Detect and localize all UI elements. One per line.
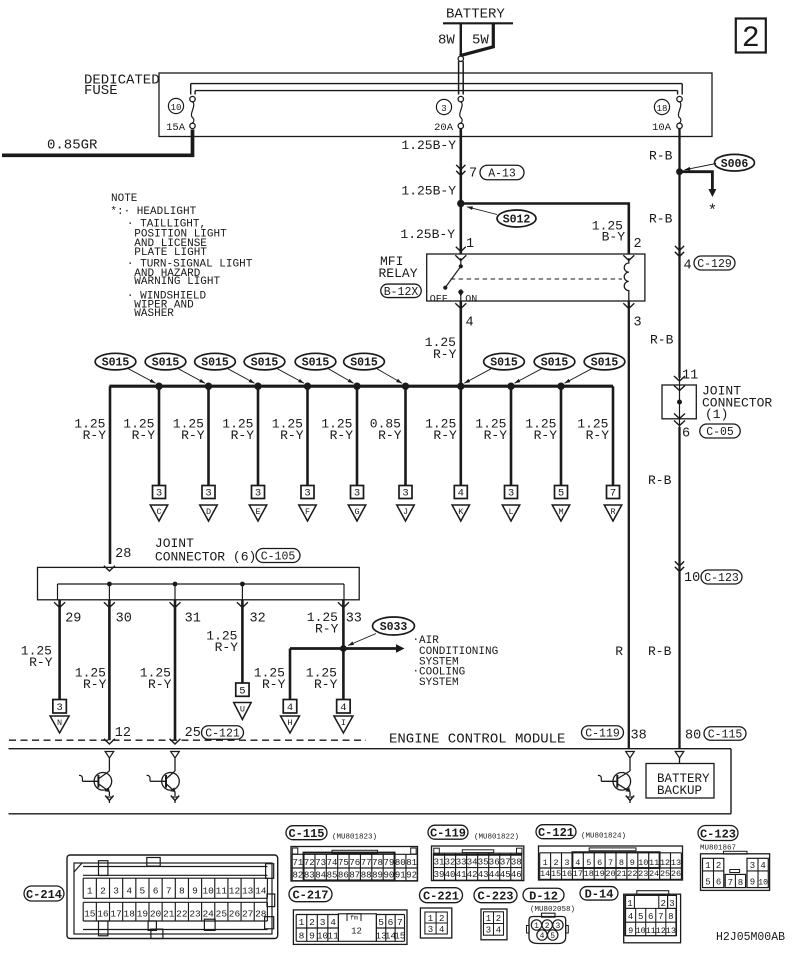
wire 0.85R-Y drop J — [370, 386, 414, 521]
splice label S015 #9 — [557, 353, 625, 390]
svg-text:9: 9 — [192, 886, 198, 897]
svg-text:28: 28 — [255, 909, 267, 920]
joint connector C-105 pin 29 — [54, 602, 81, 626]
wire 1.25R-Y drop to joint connector C-105 — [74, 386, 110, 564]
svg-text:24: 24 — [649, 869, 659, 879]
svg-text:C-115: C-115 — [708, 729, 743, 742]
svg-text:5W: 5W — [472, 33, 489, 49]
connector D-12 legend — [523, 888, 575, 943]
svg-text:88: 88 — [361, 871, 372, 881]
svg-text:S015: S015 — [102, 357, 130, 370]
svg-text:6: 6 — [648, 912, 653, 922]
svg-text:R-Y: R-Y — [433, 428, 457, 443]
svg-text:U: U — [240, 704, 245, 714]
svg-text:3: 3 — [441, 104, 446, 114]
svg-text:4: 4 — [126, 886, 132, 897]
svg-text:2: 2 — [660, 899, 665, 909]
svg-text:3: 3 — [320, 917, 326, 928]
splice label S015 #1 — [95, 353, 163, 390]
svg-text:H: H — [287, 718, 292, 728]
wire 1.25R-Y pin33 to splice S033 — [307, 600, 344, 649]
svg-text:75: 75 — [338, 858, 349, 868]
svg-text:3: 3 — [669, 899, 674, 909]
svg-text:R: R — [610, 507, 615, 517]
wire 1.25R-Y pin31 to ECM pin 25 — [140, 600, 244, 744]
svg-text:25: 25 — [660, 869, 670, 879]
svg-text:1: 1 — [543, 858, 548, 868]
svg-text:4: 4 — [684, 259, 692, 274]
svg-text:12: 12 — [660, 858, 670, 868]
svg-text:46: 46 — [511, 870, 522, 880]
svg-text:C-129: C-129 — [697, 258, 732, 271]
svg-text:38: 38 — [631, 729, 647, 744]
splice label S015 #4 — [244, 353, 311, 390]
svg-text:20: 20 — [150, 909, 162, 920]
svg-text:36: 36 — [489, 857, 500, 867]
svg-text:21: 21 — [163, 909, 175, 920]
battery feed double wire — [459, 61, 464, 94]
svg-text:S015: S015 — [201, 357, 229, 370]
battery B+ — [438, 7, 513, 62]
page number box 2 — [736, 19, 766, 57]
svg-text:R-Y: R-Y — [433, 347, 457, 362]
svg-text:79: 79 — [383, 858, 394, 868]
svg-text:1: 1 — [705, 861, 710, 871]
svg-text:15: 15 — [84, 909, 96, 920]
svg-text:13: 13 — [666, 926, 676, 936]
svg-text:C-119: C-119 — [430, 827, 466, 841]
svg-text:E: E — [255, 507, 260, 517]
svg-text:8: 8 — [619, 858, 624, 868]
svg-text:R-B: R-B — [649, 149, 673, 164]
splice bus S015 — [109, 385, 613, 388]
svg-text:1: 1 — [299, 917, 305, 928]
svg-text:28: 28 — [115, 547, 131, 562]
svg-text:17: 17 — [110, 909, 121, 920]
svg-text:I: I — [341, 718, 346, 728]
svg-text:C-123: C-123 — [704, 572, 739, 585]
svg-text:12: 12 — [229, 886, 241, 897]
wire 1.25R-Y drop G — [321, 386, 365, 521]
ECM pin 38 — [626, 729, 647, 759]
svg-text:11: 11 — [649, 858, 659, 868]
wire R relay pin 3 to ECM pin 38 — [615, 301, 629, 749]
svg-text:5: 5 — [378, 917, 384, 928]
svg-text:14: 14 — [540, 869, 550, 879]
svg-text:9: 9 — [630, 858, 635, 868]
connector C-119 legend — [428, 825, 524, 880]
svg-text:43: 43 — [478, 870, 489, 880]
svg-text:4: 4 — [287, 702, 293, 714]
svg-text:7: 7 — [469, 167, 477, 182]
svg-text:1.25B-Y: 1.25B-Y — [401, 138, 456, 153]
svg-text:19: 19 — [137, 909, 149, 920]
svg-text:SYSTEM: SYSTEM — [419, 677, 459, 689]
transistor Q2 — [147, 759, 180, 804]
svg-text:R-Y: R-Y — [314, 677, 338, 692]
svg-text:11: 11 — [216, 886, 228, 897]
wire branch S012 to relay pin 2 — [461, 204, 629, 255]
svg-text:C-221: C-221 — [423, 890, 459, 904]
svg-text:7: 7 — [166, 886, 172, 897]
svg-text:84: 84 — [315, 871, 326, 881]
svg-text:2: 2 — [742, 22, 760, 56]
svg-text:5: 5 — [558, 488, 564, 500]
svg-text:7: 7 — [658, 912, 663, 922]
svg-text:S015: S015 — [490, 357, 518, 370]
svg-text:12: 12 — [351, 927, 362, 937]
svg-text:29: 29 — [65, 612, 81, 627]
connector marker 7 A-13 — [456, 165, 524, 182]
svg-text:*:· HEADLIGHT: *:· HEADLIGHT — [110, 206, 196, 218]
svg-text:90: 90 — [383, 871, 394, 881]
wire 1.25B-Y battery feed to relay — [400, 129, 460, 255]
fusebox bus bar upper — [191, 83, 683, 85]
svg-text:ENGINE CONTROL MODULE: ENGINE CONTROL MODULE — [389, 732, 565, 748]
svg-text:C-115: C-115 — [288, 827, 324, 841]
svg-text:81: 81 — [406, 858, 417, 868]
relay pin 2 — [623, 237, 641, 261]
svg-text:S015: S015 — [541, 357, 569, 370]
svg-text:R-Y: R-Y — [315, 622, 339, 637]
svg-text:38: 38 — [511, 857, 522, 867]
ECM pin 80 — [675, 729, 701, 759]
svg-text:40: 40 — [445, 870, 456, 880]
svg-text:39: 39 — [434, 870, 445, 880]
svg-text:A-13: A-13 — [488, 168, 516, 181]
svg-text:15: 15 — [394, 931, 406, 942]
svg-text:3: 3 — [564, 858, 569, 868]
svg-text:71: 71 — [292, 858, 303, 868]
svg-text:3: 3 — [750, 861, 755, 871]
svg-text:J: J — [403, 507, 408, 517]
svg-text:76: 76 — [349, 858, 360, 868]
wire 1.25R-Y drop F — [272, 386, 316, 521]
transistor Q3 — [598, 759, 634, 804]
svg-text:14: 14 — [255, 886, 267, 897]
svg-text:NOTE: NOTE — [111, 193, 138, 205]
svg-text:4: 4 — [760, 861, 765, 871]
wire 1.25R-Y relay pin 4 to splice bus — [425, 301, 461, 386]
svg-text:42: 42 — [467, 870, 478, 880]
svg-text:D: D — [206, 507, 211, 517]
svg-text:6: 6 — [597, 858, 602, 868]
svg-text:C-05: C-05 — [706, 426, 734, 439]
svg-text:K: K — [458, 507, 464, 517]
wire 1.25R-Y drop C — [123, 386, 167, 521]
svg-text:16: 16 — [562, 869, 572, 879]
svg-text:8: 8 — [668, 912, 673, 922]
svg-text:4: 4 — [575, 858, 580, 868]
svg-text:7: 7 — [610, 488, 616, 500]
svg-text:6: 6 — [388, 917, 394, 928]
svg-text:(MU801823): (MU801823) — [332, 834, 377, 842]
svg-text:8W: 8W — [438, 33, 455, 49]
svg-text:4: 4 — [540, 932, 545, 941]
svg-text:C-217: C-217 — [292, 889, 328, 903]
ECM pin 12 input — [105, 752, 114, 759]
svg-text:1: 1 — [466, 237, 474, 252]
svg-text:3: 3 — [354, 488, 360, 500]
wire 1.25R-Y drop L — [475, 386, 519, 521]
svg-text:10: 10 — [758, 879, 768, 888]
svg-text:21: 21 — [616, 869, 626, 879]
svg-text:33: 33 — [456, 857, 467, 867]
svg-text:11: 11 — [646, 926, 656, 936]
transistor Q1 — [79, 759, 114, 804]
connector marker 10 C-123 — [675, 561, 742, 586]
svg-text:R-Y: R-Y — [29, 655, 53, 670]
svg-text:10: 10 — [202, 886, 214, 897]
svg-text:1: 1 — [534, 922, 539, 931]
svg-text:4: 4 — [439, 925, 444, 935]
wire 0.85GR from fuse 10 — [2, 130, 193, 156]
svg-text:7: 7 — [728, 878, 733, 888]
note text block — [110, 193, 252, 320]
svg-text:33: 33 — [346, 612, 362, 627]
svg-text:S015: S015 — [152, 357, 180, 370]
svg-text:22: 22 — [627, 869, 637, 879]
connector C-221 legend — [420, 888, 463, 938]
svg-text:WARNING LIGHT: WARNING LIGHT — [134, 276, 220, 288]
svg-text:1: 1 — [87, 886, 93, 897]
svg-text:S033: S033 — [380, 621, 408, 634]
svg-text:3: 3 — [156, 488, 162, 500]
svg-text:R-B: R-B — [648, 644, 672, 659]
svg-text:R-Y: R-Y — [83, 428, 107, 443]
svg-text:C-123: C-123 — [700, 827, 736, 841]
svg-text:10: 10 — [171, 103, 182, 113]
connector C-223 legend — [474, 888, 517, 940]
svg-text:C-214: C-214 — [26, 888, 62, 902]
svg-text:34: 34 — [467, 857, 478, 867]
relay pin 4 — [455, 303, 473, 330]
svg-text:C-105: C-105 — [261, 551, 296, 564]
svg-text:(1): (1) — [705, 407, 728, 422]
svg-text:10: 10 — [636, 926, 646, 936]
connector C-115 — [286, 826, 418, 881]
connector C-123 legend — [698, 826, 770, 891]
wire 1.25R-Y drop D — [173, 386, 217, 521]
svg-text:9: 9 — [750, 878, 755, 888]
svg-text:86: 86 — [338, 871, 349, 881]
svg-text:R-B: R-B — [649, 212, 673, 227]
svg-text:13: 13 — [671, 858, 681, 868]
svg-text:2: 2 — [439, 914, 444, 924]
svg-text:9: 9 — [628, 926, 633, 936]
svg-text:4: 4 — [628, 912, 633, 922]
svg-text:8: 8 — [738, 878, 743, 888]
svg-text:1.25B-Y: 1.25B-Y — [400, 227, 455, 242]
svg-text:M: M — [558, 507, 563, 517]
ECM connector label C-115 — [704, 727, 746, 741]
svg-text:24: 24 — [202, 909, 214, 920]
splice label S015 #8 — [507, 353, 575, 390]
svg-text:C: C — [156, 507, 161, 517]
svg-text:9: 9 — [309, 931, 315, 942]
svg-text:8: 8 — [179, 886, 185, 897]
svg-text:80: 80 — [685, 729, 701, 744]
svg-text:2: 2 — [634, 237, 642, 252]
svg-text:20A: 20A — [434, 122, 454, 134]
ECM pin 25 input — [171, 752, 180, 759]
svg-text:26: 26 — [229, 909, 241, 920]
svg-text:1: 1 — [627, 899, 632, 909]
svg-text:74: 74 — [327, 858, 338, 868]
svg-text:H2J05M00AB: H2J05M00AB — [716, 931, 785, 944]
splice label S015 #6 — [344, 353, 410, 390]
wire 1.25R-Y drop R — [577, 386, 621, 521]
connector D-14 legend — [580, 887, 681, 943]
svg-text:5: 5 — [140, 886, 146, 897]
svg-text:D-12: D-12 — [529, 889, 558, 903]
svg-text:20: 20 — [605, 869, 615, 879]
svg-text:C-121: C-121 — [205, 728, 240, 741]
wire S006 branch stub — [680, 172, 718, 220]
engine control module boundary — [9, 732, 732, 814]
svg-text:7: 7 — [608, 858, 613, 868]
relay switch contact — [430, 258, 478, 306]
connector C-217 legend — [289, 887, 407, 945]
svg-text:22: 22 — [176, 909, 188, 920]
splice S006 — [676, 154, 754, 175]
wire 1.25R-Y pin30 to ECM pin 12 — [75, 600, 131, 744]
joint connector (1) C-05 — [662, 369, 772, 442]
svg-text:RELAY: RELAY — [379, 266, 418, 281]
svg-text:26: 26 — [671, 869, 681, 879]
fusebox bus bar lower — [195, 90, 677, 92]
connector marker 4 C-129 — [675, 246, 735, 274]
svg-text:3: 3 — [56, 702, 62, 714]
svg-text:5: 5 — [705, 878, 710, 888]
svg-text:31: 31 — [434, 857, 445, 867]
svg-text:82: 82 — [292, 871, 303, 881]
svg-text:1: 1 — [428, 914, 433, 924]
wire 1.25R-Y drop M — [525, 386, 569, 521]
svg-text:3: 3 — [304, 488, 310, 500]
svg-text:OFF: OFF — [430, 295, 448, 306]
svg-text:23: 23 — [189, 909, 201, 920]
svg-text:5: 5 — [586, 858, 591, 868]
wire 1.25R-Y pin29 to ground N — [21, 600, 69, 733]
svg-text:11: 11 — [327, 931, 339, 942]
relay pin 1 — [455, 237, 474, 261]
svg-text:5: 5 — [239, 685, 245, 697]
svg-text:R: R — [615, 644, 623, 659]
svg-text:12: 12 — [656, 926, 666, 936]
svg-text:0.85GR: 0.85GR — [47, 138, 98, 154]
svg-text:S012: S012 — [503, 214, 531, 227]
svg-text:2: 2 — [100, 886, 106, 897]
svg-text:(MU801824): (MU801824) — [581, 833, 626, 841]
svg-text:4: 4 — [496, 926, 501, 936]
joint connector (6) C-105 — [38, 536, 360, 600]
svg-text:80: 80 — [395, 858, 406, 868]
svg-text:27: 27 — [242, 909, 253, 920]
svg-text:fm: fm — [350, 915, 358, 922]
svg-text:B-Y: B-Y — [602, 230, 626, 245]
svg-text:91: 91 — [395, 871, 406, 881]
svg-text:R-Y: R-Y — [330, 428, 354, 443]
svg-text:1.25B-Y: 1.25B-Y — [401, 184, 456, 199]
svg-text:6: 6 — [153, 886, 159, 897]
svg-text:C-121: C-121 — [538, 826, 574, 840]
wire 1.25R-Y branch to ground I — [306, 649, 353, 734]
svg-text:C-119: C-119 — [585, 728, 620, 741]
A/C system note text — [413, 635, 499, 689]
joint connector C-105 pin 30 — [104, 602, 132, 626]
svg-text:23: 23 — [638, 869, 648, 879]
svg-text:78: 78 — [372, 858, 383, 868]
svg-text:85: 85 — [327, 871, 338, 881]
wire 1.25R-Y branch to ground H — [254, 649, 300, 734]
battery backup unit — [646, 758, 714, 798]
svg-text:4: 4 — [458, 488, 464, 500]
svg-text:31: 31 — [185, 612, 201, 627]
wire 1.25R-Y drop E — [222, 386, 266, 521]
relay pin 3 — [623, 303, 641, 330]
svg-text:37: 37 — [500, 857, 511, 867]
svg-text:3: 3 — [428, 925, 433, 935]
svg-text:4: 4 — [466, 316, 474, 331]
svg-text:R-B: R-B — [648, 473, 672, 488]
splice label S015 #7 — [457, 353, 524, 390]
ECM connector label C-119 — [582, 726, 624, 740]
svg-text:PLATE LIGHT: PLATE LIGHT — [134, 247, 207, 259]
svg-text:17: 17 — [573, 869, 583, 879]
svg-text:73: 73 — [315, 858, 326, 868]
svg-text:ON: ON — [465, 295, 477, 306]
svg-text:16: 16 — [97, 909, 109, 920]
svg-text:G: G — [354, 507, 359, 517]
joint connector C-105 pin 33 — [338, 602, 362, 626]
svg-text:4: 4 — [330, 917, 336, 928]
fuse 3 rated 20A — [434, 96, 463, 134]
svg-text:10: 10 — [638, 858, 648, 868]
svg-text:R-Y: R-Y — [215, 640, 239, 655]
svg-text:4: 4 — [340, 702, 346, 714]
svg-text:3: 3 — [634, 316, 642, 331]
svg-text:92: 92 — [406, 871, 417, 881]
svg-text:83: 83 — [304, 871, 315, 881]
svg-text:25: 25 — [216, 909, 228, 920]
svg-text:45: 45 — [500, 870, 511, 880]
svg-text:2: 2 — [553, 858, 558, 868]
svg-text:*: * — [708, 202, 718, 220]
svg-text:L: L — [508, 507, 513, 517]
svg-text:R-Y: R-Y — [231, 428, 255, 443]
svg-text:B-12X: B-12X — [384, 286, 419, 299]
svg-text:R-Y: R-Y — [262, 677, 286, 692]
svg-text:3: 3 — [205, 488, 211, 500]
svg-text:R-Y: R-Y — [378, 428, 402, 443]
wire 1.25R-Y pin32 to ground U — [206, 600, 251, 720]
svg-text:25: 25 — [185, 726, 201, 741]
svg-text:R-Y: R-Y — [586, 428, 610, 443]
svg-text:N: N — [57, 718, 62, 728]
svg-text:77: 77 — [361, 858, 372, 868]
svg-text:72: 72 — [304, 858, 315, 868]
svg-text:18: 18 — [584, 869, 594, 879]
svg-text:BACKUP: BACKUP — [657, 784, 702, 798]
relay actuation dashed link — [451, 278, 622, 280]
svg-text:3: 3 — [402, 488, 408, 500]
splice label S015 #2 — [145, 353, 212, 390]
svg-text:6: 6 — [682, 427, 690, 442]
MFI relay box B-12X — [379, 254, 645, 301]
svg-text:R-Y: R-Y — [132, 428, 156, 443]
svg-text:10: 10 — [684, 571, 700, 586]
